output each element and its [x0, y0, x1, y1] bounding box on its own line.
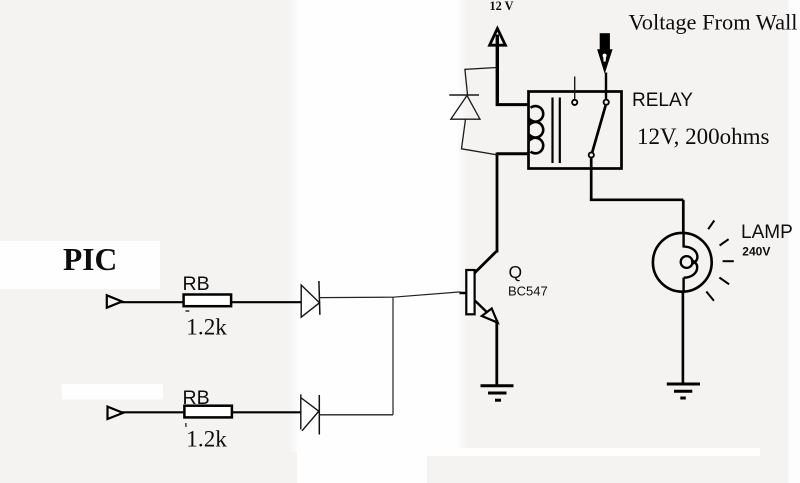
svg-text:Voltage From Wall: Voltage From Wall [629, 9, 798, 34]
input diode D1 triangle [301, 285, 319, 317]
input arrow 1 [107, 295, 122, 307]
wire emitter vertical [495, 320, 498, 386]
relay contact common circle [589, 152, 594, 157]
svg-text:RELAY: RELAY [632, 90, 693, 111]
lamp ray 2 [720, 239, 729, 245]
flyback diode D3 top wire [465, 68, 497, 95]
tick under RB2 [185, 423, 187, 427]
flyback diode D3 bottom wire [462, 119, 499, 155]
12V supply wire [496, 35, 499, 107]
wire down to lamp [682, 200, 685, 233]
input diode D2 triangle [301, 394, 319, 430]
svg-text:12 V: 12 V [490, 0, 514, 13]
ground transistor bar2 [488, 392, 507, 395]
relay NC stub [574, 77, 576, 100]
svg-text:LAMP: LAMP [741, 222, 793, 243]
resistor RB2 body [184, 406, 232, 418]
white backdrop behind PIC [0, 241, 160, 289]
flyback diode D3 cathode bar [449, 94, 479, 96]
svg-text:Q: Q [509, 262, 523, 282]
wire diode D2 to branch [319, 414, 393, 416]
input diode D2 cathode bar [318, 395, 320, 435]
lamp filament top lead [682, 232, 684, 248]
lamp filament loop [681, 256, 693, 268]
wire coil top terminal [496, 103, 529, 106]
transistor emitter arrowhead [482, 309, 498, 323]
wire wall to NO contact [605, 73, 607, 99]
wire resistor RB2 to diode D2 [232, 411, 302, 413]
wire diode D1 to base node [319, 292, 460, 298]
wire collector vertical [496, 153, 499, 253]
12V supply arrow [490, 29, 506, 46]
lamp ray 3 [723, 260, 734, 262]
svg-text:12V, 200ohms: 12V, 200ohms [637, 124, 770, 149]
lamp ray 4 [719, 278, 729, 285]
white strip right edge [789, 0, 800, 483]
tick under RB1 [186, 310, 190, 312]
transistor base stub [460, 292, 467, 295]
relay core line 2 [559, 98, 561, 164]
transistor Q1 base bar [466, 270, 474, 314]
wire input2 to resistor [122, 411, 186, 413]
transistor emitter diagonal [475, 301, 487, 313]
flyback diode D3 triangle [451, 96, 480, 120]
input diode D1 cathode bar [319, 281, 320, 315]
relay contact NC circle [572, 100, 577, 105]
lamp filament lower hook [684, 260, 698, 277]
wire collector diagonal [474, 252, 496, 274]
svg-text:1.2k: 1.2k [186, 427, 227, 453]
lamp filament upper hook [684, 247, 698, 264]
wire input1 to resistor [121, 301, 185, 303]
ground lamp bar2 [674, 390, 692, 393]
right panel tint [467, 0, 789, 449]
relay contact NO circle [604, 100, 609, 105]
wall voltage arrow notch [603, 54, 607, 58]
svg-text:BC547: BC547 [508, 283, 548, 298]
relay box [529, 92, 622, 169]
svg-text:PIC: PIC [63, 242, 117, 277]
wire resistor RB1 to diode D1 [231, 301, 302, 303]
ground lamp bar3 [680, 397, 686, 400]
lamp filament bottom lead [682, 278, 684, 293]
ground transistor bar3 [495, 399, 501, 402]
white band bottom right [427, 448, 760, 456]
wire horizontal to lamp [590, 198, 683, 201]
wire common contact down [590, 158, 593, 201]
relay coil [531, 106, 544, 153]
relay core line 1 [551, 98, 553, 164]
wire branch junction down [392, 297, 394, 415]
wall voltage arrow head [597, 49, 613, 74]
ground lamp bar1 [667, 383, 700, 386]
svg-text:1.2k: 1.2k [186, 315, 227, 341]
wall voltage arrow body [600, 33, 610, 50]
input arrow 2 [108, 407, 124, 419]
white backdrop lower left of column [297, 450, 427, 483]
svg-text:240V: 240V [742, 244, 770, 258]
lamp ray 5 [706, 292, 714, 301]
ground transistor bar1 [481, 384, 514, 387]
lamp ray 1 [708, 221, 714, 230]
wire coil bottom terminal [497, 152, 529, 155]
lamp circle [653, 233, 712, 292]
white band second input [62, 384, 163, 400]
relay switch arm [592, 106, 605, 153]
svg-text:RB: RB [183, 273, 210, 295]
resistor RB1 body [184, 295, 232, 307]
wire lamp to ground [682, 292, 685, 384]
